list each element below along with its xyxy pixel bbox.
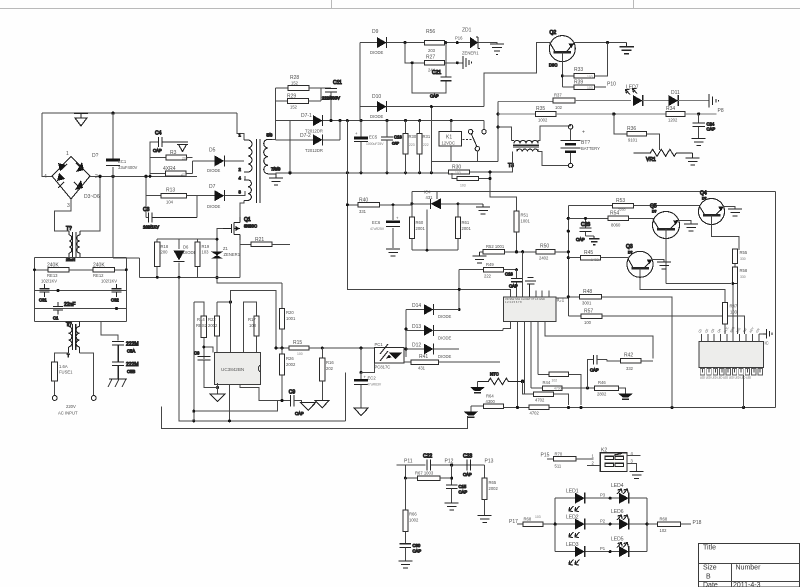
wire R28/R29 left junction	[274, 88, 276, 121]
svg-text:C9: C9	[289, 390, 296, 396]
LED LED3	[566, 542, 585, 565]
ground ZD1	[490, 44, 504, 55]
resistor R44	[531, 379, 594, 391]
junction	[457, 202, 460, 205]
svg-text:BATTERY: BATTERY	[581, 146, 600, 151]
resistor R52	[479, 244, 516, 254]
svg-text:LED4: LED4	[611, 483, 624, 489]
svg-text:FUSE1: FUSE1	[59, 370, 73, 375]
wire bridge bottom to T1	[55, 199, 71, 231]
capacitor C13	[381, 121, 402, 173]
svg-text:R49: R49	[486, 262, 494, 267]
junction	[488, 170, 491, 173]
svg-text:R14: R14	[197, 317, 205, 322]
wire R60/R61 bottom loop	[412, 249, 458, 251]
svg-text:220V: 220V	[66, 404, 76, 409]
svg-text:R34: R34	[666, 106, 675, 112]
svg-text:C18: C18	[505, 272, 513, 277]
LED LED4	[611, 483, 629, 504]
resistor 4702 bottom	[529, 405, 549, 415]
svg-text:DIODE: DIODE	[370, 50, 383, 55]
wire R13 right to D7	[187, 196, 215, 218]
junction	[192, 410, 195, 413]
junction	[515, 250, 518, 253]
wire IC1 right pin to bus	[556, 297, 569, 298]
wire ground return line	[162, 407, 468, 429]
wire T3 bottom-left to rail	[490, 152, 517, 172]
LED LED6	[611, 509, 629, 530]
wire line-A gnd	[194, 401, 278, 412]
svg-text:103: 103	[249, 323, 257, 328]
sheet border top	[0, 0, 800, 9]
svg-text:R30: R30	[452, 165, 461, 171]
LED LED2	[566, 515, 585, 538]
svg-text:1000uF25V: 1000uF25V	[366, 142, 384, 146]
wire D9 to R56	[387, 42, 425, 44]
LED LED7	[626, 85, 643, 107]
svg-text:12VDC: 12VDC	[442, 141, 456, 146]
wire D7-2 row	[275, 121, 340, 140]
resistor R14	[196, 316, 213, 359]
svg-text:R56: R56	[426, 29, 435, 35]
svg-text:CAP: CAP	[509, 284, 518, 289]
diode D7-2	[300, 133, 323, 153]
svg-text:Number: Number	[736, 565, 762, 572]
svg-text:IC: IC	[765, 341, 769, 346]
junction	[404, 41, 407, 44]
svg-text:431: 431	[426, 195, 434, 200]
svg-text:LED6: LED6	[611, 509, 624, 515]
svg-text:R21: R21	[255, 237, 264, 243]
capacitor C31	[39, 284, 50, 303]
junction	[516, 406, 519, 409]
wire D6 column long drop	[179, 277, 346, 421]
resistor RE13 240K	[48, 267, 69, 272]
wire PC1 top-right column	[404, 310, 424, 358]
svg-text:240K: 240K	[47, 263, 59, 269]
wire box right edge	[774, 191, 776, 407]
wire Q2 collector to ground	[574, 42, 627, 44]
wire rail to T1 right	[80, 176, 100, 231]
transistor Q2	[549, 30, 575, 68]
wire main top rail	[275, 121, 483, 130]
junction	[430, 105, 433, 108]
svg-text:C3: C3	[143, 207, 150, 213]
svg-text:D7-2: D7-2	[300, 133, 311, 139]
wire Q4 base to R55	[712, 215, 739, 250]
svg-text:222M: 222M	[126, 362, 139, 368]
svg-text:1402: 1402	[591, 258, 599, 262]
svg-text:2402: 2402	[539, 256, 549, 261]
resistor R26	[279, 348, 296, 401]
svg-text:CAP: CAP	[413, 549, 422, 554]
ground C9	[301, 403, 316, 411]
capacitor C19	[588, 355, 608, 388]
svg-text:T2012DR: T2012DR	[305, 148, 323, 153]
svg-text:EC1: EC1	[118, 159, 127, 164]
resistor R42	[607, 353, 653, 372]
svg-text:D9C: D9C	[549, 63, 557, 68]
ground earth IC3 right	[759, 329, 772, 339]
wire Q5 emitter to ground	[678, 220, 691, 224]
svg-text:R47: R47	[730, 304, 738, 309]
svg-text:D3~D6: D3~D6	[84, 194, 100, 200]
svg-text:R60: R60	[416, 220, 424, 225]
capacitor EC1	[106, 113, 138, 176]
svg-text:103: 103	[202, 250, 210, 255]
wire box bottom to C5A chain	[101, 322, 118, 341]
svg-text:Size: Size	[703, 565, 717, 572]
wire R49 left column	[458, 270, 460, 310]
svg-text:R55: R55	[740, 250, 748, 255]
junction	[426, 249, 429, 252]
svg-text:2001: 2001	[462, 226, 472, 231]
junction	[275, 347, 278, 350]
capacitor EC5 1000uF25V	[354, 121, 384, 173]
ground Q3	[657, 262, 671, 269]
svg-text:CAP: CAP	[707, 127, 716, 132]
capacitor C5B 222M	[112, 362, 138, 379]
svg-text:C22: C22	[423, 454, 432, 460]
svg-text:NTC: NTC	[490, 372, 499, 377]
transformer T2 secondary winding	[264, 133, 281, 174]
junction	[156, 276, 159, 279]
svg-text:C5A: C5A	[127, 349, 135, 354]
junction	[606, 41, 609, 44]
svg-text:UC3842BN: UC3842BN	[221, 367, 244, 372]
svg-text:R44: R44	[543, 380, 551, 385]
wire Q5 base down	[666, 229, 731, 283]
wire top rail	[42, 113, 244, 140]
svg-text:R40: R40	[359, 198, 368, 204]
svg-text:1 2 3 4 5 6 7 8: 1 2 3 4 5 6 7 8	[505, 300, 522, 304]
transformer T1 choke 25mH	[66, 226, 80, 262]
svg-text:P15: P15	[541, 453, 550, 459]
diode D14	[412, 303, 451, 319]
wire LED7 to D11	[643, 100, 669, 102]
svg-text:Q1: Q1	[244, 217, 251, 223]
svg-text:AC INPUT: AC INPUT	[58, 411, 78, 416]
wire bottom return rail	[290, 121, 449, 173]
transformer T3	[508, 140, 539, 169]
svg-text:103: 103	[535, 515, 541, 519]
resistor R50	[536, 244, 568, 261]
svg-text:4XR4: 4XR4	[163, 166, 176, 172]
capacitor C1 22nF	[53, 302, 75, 321]
IC5 UC3842BN	[214, 353, 260, 385]
svg-text:R67 1003: R67 1003	[415, 471, 434, 476]
resistor R57	[568, 309, 744, 335]
resistor R56	[425, 29, 445, 53]
svg-text:R15: R15	[293, 340, 302, 346]
junction	[584, 217, 587, 220]
wire rail 193 top of control section	[412, 190, 776, 192]
ground Q5	[684, 224, 698, 231]
capacitor C32	[111, 284, 122, 303]
LED LED1	[566, 489, 585, 512]
svg-text:C23: C23	[463, 454, 472, 460]
resistor top 4702	[538, 372, 581, 405]
resistor R21	[240, 237, 290, 247]
ground C24	[692, 139, 706, 146]
wire D13 to IC1	[433, 324, 510, 330]
svg-text:C21: C21	[432, 70, 441, 76]
wire IC5 pin cols	[230, 384, 291, 421]
svg-text:R18: R18	[161, 244, 169, 249]
ground chassis under C5B	[108, 379, 127, 387]
capacitor C18	[505, 270, 522, 297]
NTC	[477, 372, 522, 385]
diode D10	[360, 94, 387, 119]
ground C26	[586, 236, 600, 245]
transistor Q5	[650, 204, 680, 239]
wire arch R14	[194, 302, 204, 316]
svg-text:7/8/9: 7/8/9	[271, 167, 281, 172]
resistor R49	[459, 262, 516, 279]
svg-text:2002: 2002	[208, 323, 218, 328]
junction	[586, 387, 589, 390]
240K RC box	[33, 257, 128, 321]
resistor R32	[449, 165, 470, 175]
resistor R70	[547, 452, 594, 469]
wire D10 net to Q2 base	[484, 43, 550, 107]
resistor R55	[732, 249, 747, 264]
svg-text:222: 222	[423, 143, 429, 147]
ground EC2	[354, 408, 369, 416]
wire column x497	[497, 102, 499, 162]
wire rail up to C3 row	[113, 176, 140, 277]
svg-text:RES2: RES2	[196, 323, 208, 328]
svg-text:DIODE: DIODE	[438, 314, 451, 319]
svg-text:3: 3	[67, 203, 70, 209]
wire R30/R31 right junction to R51	[470, 172, 517, 211]
IC3	[699, 341, 764, 367]
svg-text:D?: D?	[628, 251, 632, 255]
svg-text:R54: R54	[610, 211, 619, 217]
svg-text:152: 152	[291, 81, 299, 86]
wire R58 bottom to IC3 pins	[733, 284, 738, 335]
resistor R30 vertical	[403, 121, 417, 173]
resistor R13	[161, 193, 187, 198]
capacitor EC2	[354, 348, 382, 408]
wire left edge down to bridge	[42, 113, 52, 176]
resistor R36	[614, 114, 660, 150]
IC3 bottom pin labels	[700, 376, 751, 380]
wire T3 bottom-right to battery minus	[538, 152, 569, 166]
optocoupler PC1 PC817C	[374, 342, 403, 370]
svg-text:R50: R50	[540, 244, 549, 250]
svg-text:330: 330	[740, 275, 746, 279]
wire Q1 source column	[239, 240, 241, 277]
IC4 431 TL431	[412, 190, 458, 251]
svg-text:1002: 1002	[409, 518, 419, 523]
svg-text:47uR25V: 47uR25V	[370, 227, 385, 231]
resistor R41	[404, 354, 500, 371]
svg-text:DIODE: DIODE	[438, 354, 451, 359]
junction	[57, 289, 60, 292]
svg-text:330: 330	[740, 257, 746, 261]
resistor R16	[320, 348, 335, 400]
svg-text:222: 222	[484, 274, 492, 279]
svg-text:C6: C6	[194, 351, 200, 356]
svg-text:8060: 8060	[611, 223, 621, 228]
resistor R37	[498, 93, 575, 111]
IC3 bottom pin pads	[700, 369, 762, 376]
resistor R35	[498, 106, 556, 123]
svg-text:R53: R53	[616, 198, 625, 204]
svg-text:D7-1: D7-1	[301, 113, 312, 119]
svg-text:R31: R31	[423, 134, 431, 139]
resistor R31b	[452, 173, 478, 188]
junction	[731, 282, 734, 285]
resistor R39	[562, 80, 606, 91]
wire arch R17	[243, 302, 256, 353]
svg-text:4702: 4702	[530, 411, 540, 416]
svg-text:1: 1	[66, 151, 69, 157]
capacitor EC6	[370, 205, 400, 248]
svg-text:2802: 2802	[597, 392, 607, 397]
ground Q4	[728, 209, 742, 216]
capacitor C6	[194, 351, 218, 388]
resistor R68a	[517, 515, 555, 527]
junction	[411, 61, 414, 64]
wire R61 top to ground	[458, 203, 483, 205]
svg-text:D14: D14	[412, 303, 421, 309]
ground R46	[618, 394, 633, 400]
svg-text:RE12: RE12	[93, 273, 104, 278]
diode D12	[406, 343, 451, 360]
ground IC5	[210, 386, 225, 402]
svg-text:R46: R46	[598, 380, 606, 385]
svg-text:4: 4	[44, 174, 47, 180]
diode D7	[207, 184, 225, 209]
svg-text:223: 223	[409, 143, 415, 147]
junction	[288, 171, 291, 174]
resistor R20	[279, 283, 296, 348]
svg-text:R30: R30	[409, 134, 417, 139]
diode D5	[207, 148, 225, 174]
svg-text:C30: C30	[413, 543, 421, 548]
svg-text:DIODE: DIODE	[207, 168, 220, 173]
transformer T1 line side	[66, 322, 80, 359]
svg-text:5/6: 5/6	[267, 133, 273, 138]
svg-text:R37: R37	[554, 93, 562, 98]
svg-text:Z1: Z1	[223, 246, 229, 251]
svg-text:222/500V: 222/500V	[322, 96, 340, 101]
junction	[192, 419, 195, 422]
wire D11 to earth	[678, 100, 709, 102]
svg-text:47uR63V: 47uR63V	[367, 383, 382, 387]
resistor R67	[405, 465, 451, 485]
LED array box wires	[555, 498, 647, 551]
capacitor C22	[423, 454, 484, 471]
wire R37 row to LED7	[575, 100, 631, 102]
svg-text:2: 2	[95, 174, 98, 180]
svg-text:R13: R13	[166, 188, 175, 194]
svg-text:D13: D13	[412, 324, 421, 330]
svg-text:P10: P10	[607, 82, 616, 88]
wire T1 right down to terminal	[80, 353, 94, 396]
wire Q4 emitter to ground	[723, 206, 735, 209]
svg-text:R22: R22	[208, 317, 216, 322]
svg-text:102/1KV: 102/1KV	[101, 279, 117, 284]
svg-text:2001: 2001	[416, 226, 426, 231]
capacitor C11	[322, 80, 342, 121]
svg-text:9101: 9101	[628, 138, 638, 143]
svg-text:C13: C13	[394, 135, 402, 140]
wire R42 loop top	[545, 324, 653, 358]
ground earth sideways D11	[709, 94, 719, 108]
svg-text:R65: R65	[489, 480, 497, 485]
svg-text:152: 152	[290, 105, 298, 110]
svg-text:D?: D?	[92, 153, 99, 159]
svg-text:22nF: 22nF	[64, 302, 75, 308]
svg-text:25mH: 25mH	[66, 258, 76, 262]
svg-text:R26: R26	[286, 356, 294, 361]
svg-text:P13: P13	[485, 459, 494, 465]
capacitor C24	[693, 114, 716, 139]
resistor R22	[208, 316, 220, 353]
resistor R53	[568, 198, 699, 212]
svg-text:T: T	[67, 353, 70, 358]
ground K2	[630, 471, 644, 478]
junction	[360, 371, 363, 374]
svg-text:1202: 1202	[668, 118, 678, 123]
ground C30	[398, 561, 412, 568]
svg-text:R66: R66	[409, 512, 417, 517]
svg-text:LED3: LED3	[566, 542, 579, 548]
resistor R68b	[647, 517, 691, 534]
wire T2 bottom rail start	[276, 173, 290, 174]
junction	[111, 175, 114, 178]
svg-text:P11: P11	[404, 459, 413, 465]
svg-text:103: 103	[460, 184, 466, 188]
wire R35 row long	[556, 113, 666, 115]
svg-text:D9: D9	[372, 29, 379, 35]
svg-text:IC4: IC4	[424, 190, 431, 195]
resistor R33	[562, 43, 607, 79]
zener ZD1	[455, 28, 480, 56]
wire T3 top-right to battery plus	[538, 125, 571, 141]
resistor R40	[347, 198, 412, 215]
diode D7-1	[301, 113, 323, 134]
svg-text:102/1KV: 102/1KV	[143, 225, 159, 230]
resistor R51 vertical	[514, 211, 531, 250]
IC1 top pins	[536, 291, 549, 297]
svg-text:R39: R39	[574, 80, 583, 86]
wire R3/4XR4 right junction to D5	[186, 158, 215, 174]
svg-text:LED1: LED1	[566, 489, 579, 495]
relay contacts	[468, 130, 486, 162]
svg-text:202: 202	[326, 366, 334, 371]
ground R64	[464, 406, 479, 417]
IC3 bottom pins	[703, 368, 761, 373]
svg-text:R33: R33	[574, 67, 583, 73]
svg-text:R57: R57	[584, 309, 593, 315]
svg-text:PC1: PC1	[375, 342, 384, 347]
ground EC6	[386, 249, 400, 256]
wire R28/R29 right junction	[309, 88, 331, 101]
wire D12 right	[433, 348, 459, 350]
wire D5 to T2 pin1	[225, 160, 245, 162]
svg-text:100: 100	[297, 352, 303, 356]
ground R61	[476, 204, 490, 214]
wire R56 to ZD1	[445, 42, 470, 44]
wire IC3 bottom pin to rail	[743, 375, 745, 407]
svg-text:CAP: CAP	[576, 237, 585, 242]
svg-text:R36: R36	[627, 126, 636, 132]
junction	[33, 268, 36, 271]
